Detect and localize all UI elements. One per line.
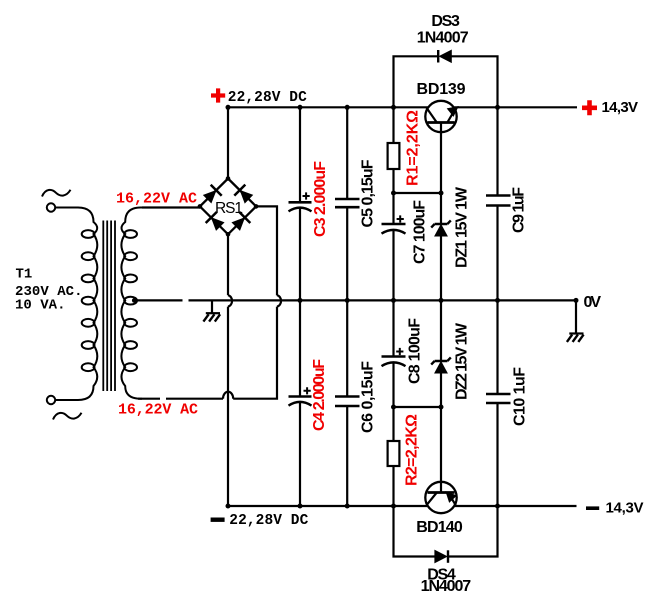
wire Q1 base to DZ1 [440,123,442,225]
svg-text:C7 100uF: C7 100uF [412,200,429,264]
node +rail/C3 [298,105,303,110]
svg-text:BD139: BD139 [417,81,466,98]
node +rail/R1/DS3 [391,105,396,110]
capacitor C6 [335,397,360,407]
capacitor C9 [486,196,511,206]
transistor Q1 BD139 [425,101,457,132]
node bridge right [254,204,259,209]
wire bridge right vertex to corner [256,206,277,295]
resistor R2 [388,441,400,466]
node -rail/C6 [345,504,350,509]
svg-text:R1=2,2KΩ: R1=2,2KΩ [405,110,422,186]
node +rail/C5 [345,105,350,110]
transistor Q2 BD140 [425,482,456,513]
wire DS4 loop [394,506,498,557]
capacitor C7 [382,215,406,233]
node bridge bottom [226,232,231,237]
node 0V/C5C6 [345,298,350,303]
svg-text:1N4007: 1N4007 [417,30,469,47]
svg-text:C3 2.000uF: C3 2.000uF [312,161,329,237]
capacitor C10 [486,394,511,403]
wire 0V rail [134,299,577,301]
diode DS4 [435,550,448,563]
svg-text:14,3V: 14,3V [606,500,644,517]
node 0V/C9C10 [495,298,500,303]
svg-text:C4 2.000uF: C4 2.000uF [311,359,328,431]
svg-text:C10 1uF: C10 1uF [512,367,529,426]
node -rail/R2/DS4 [391,504,396,509]
wire secondary top to bridge left vertex [142,206,200,208]
wire gap artifacts [160,298,189,401]
bridge rectifier RS1 [200,179,256,235]
wire base junction top [394,192,442,194]
svg-text:R2=2,2KΩ: R2=2,2KΩ [404,414,421,486]
wire C6 branch [346,300,348,506]
wire bottom rail -14.3V output (right of Q2) [455,505,577,507]
node center tap [132,298,137,303]
capacitor C8 [382,348,406,366]
node 0V/DZ1DZ2 [439,298,444,303]
node +rail/bridge [226,105,231,110]
svg-text:RS1: RS1 [215,200,243,217]
svg-text:14,3V: 14,3V [602,99,639,116]
T1 AC tilde top [42,190,71,197]
wire hop x228 over 0V [228,295,232,306]
node 0V end [574,298,579,303]
capacitor C4 [289,387,312,405]
RS1 diode LL bar [206,212,217,223]
transformer T1 [42,190,200,420]
wire base junction bottom [394,406,442,408]
svg-text:16,22V AC: 16,22V AC [116,190,197,207]
wire 0V to DZ2 [440,300,442,361]
wire C3 branch [299,107,301,300]
wire x228 down to bottom rail [227,307,229,506]
capacitor C5 [335,199,360,207]
T1 primary terminal top [47,203,55,211]
wire secondary bottom horizontal [138,398,223,400]
wire hop x277 over 0V [277,295,281,306]
wire hop y398.7 over x228 [223,392,233,399]
node R1/C7 junction [391,191,396,196]
svg-text:C9 1uF: C9 1uF [511,187,528,233]
wire bottom rail -22V (left of Q2) [228,505,427,507]
ground (center tap) [203,300,220,321]
RS1 diode LR bar [239,212,250,223]
svg-text:C6 0,15uF: C6 0,15uF [359,361,376,433]
node bridge left [198,204,203,209]
wire C9 branch [496,107,498,300]
svg-text:DS3: DS3 [431,13,460,30]
node 0V/C3C4 [298,298,303,303]
wire top rail +14.3V output (right of Q1) [454,106,577,108]
node 0V/C7C8 [391,298,396,303]
label +22V plus sign [211,88,225,102]
RS1 diode LR arrow [233,218,244,229]
node R2/C8 junction [391,405,396,410]
capacitor C3 [289,192,312,211]
T1 AC tilde bottom [53,413,82,420]
diode DS3 [438,50,451,63]
RS1 diode UL arrow [204,191,215,202]
wire 0V terminal stub [575,300,577,333]
svg-text:BD140: BD140 [416,519,463,536]
RS1 diode UL bar [211,185,222,196]
RS1 diode UR arrow [241,191,252,202]
svg-text:C5 0,15uF: C5 0,15uF [360,159,377,227]
T1 primary winding [55,208,97,401]
node bridge top [226,176,231,181]
resistor R1 [388,143,400,169]
wire x277 below 0V down to corner [233,307,277,399]
RS1 diamond [200,179,256,235]
wire DZ1 to 0V [440,236,442,300]
wire C10 branch [496,300,498,506]
node -rail/C4 [298,504,303,509]
node +out/DS3/C9 [495,105,500,110]
svg-text:C8 100uF: C8 100uF [407,318,424,384]
svg-text:22,28V DC: 22,28V DC [229,513,308,529]
wire top rail +22V (left of Q1) [228,106,428,108]
svg-text:22,28V DC: 22,28V DC [228,90,307,106]
wire R1 C7 branch [392,107,394,300]
svg-text:T1: T1 [16,267,33,283]
svg-text:DZ2 15V 1W: DZ2 15V 1W [454,322,471,400]
node -rail/bridge [226,504,231,509]
zener diode DZ1 [431,220,451,236]
svg-text:0V: 0V [584,294,602,311]
T1 secondary winding [121,208,200,399]
label minus -22V [211,518,225,522]
svg-text:1N4007: 1N4007 [421,578,472,595]
RS1 diode LL arrow [212,218,223,229]
svg-text:DZ1 15V 1W: DZ1 15V 1W [454,186,471,268]
svg-text:10 VA.: 10 VA. [15,298,66,314]
node -out/DS4/C10 [495,504,500,509]
wire DZ2 to Q2 base [440,373,442,493]
T1 primary terminal bottom [47,396,55,404]
node Q2 base junction [439,405,444,410]
svg-text:16,22V AC: 16,22V AC [118,401,198,418]
ground (0V output) [567,334,584,342]
RS1 diode UR bar [234,185,245,196]
wire bridge top to +rail [227,107,229,178]
label minus -14,3V [586,506,599,510]
T1 core [103,221,115,392]
label +14,3V plus sign [582,100,597,115]
T1 secondary loops [124,230,137,371]
wire DS3 loop [394,56,498,107]
wire C8 R2 branch [392,300,394,506]
T1 primary loops [82,230,95,371]
wire bridge bottom down to hop [227,234,229,295]
zener diode DZ2 [431,357,451,373]
node Q1 base junction [439,191,444,196]
wire C4 branch [299,300,301,506]
wire C5 branch [346,107,348,300]
